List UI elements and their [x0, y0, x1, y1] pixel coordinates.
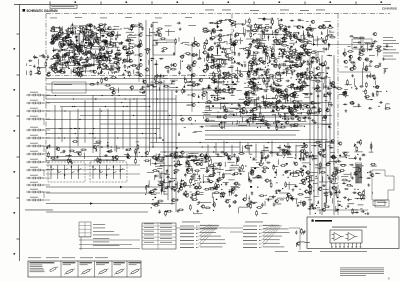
label text [157, 167, 162, 170]
ground [147, 185, 150, 188]
resistor R253 [229, 43, 235, 45]
capacitor C96 [220, 121, 222, 125]
ground [132, 51, 135, 54]
capacitor C112 [264, 79, 266, 83]
capacitor C74 [159, 81, 163, 83]
wire [325, 140, 334, 142]
capacitor C259 [257, 175, 259, 179]
diode D97 [278, 71, 280, 74]
wire [286, 36, 295, 38]
diode D18 [74, 71, 78, 73]
svg-text:CX-50 RS/G: CX-50 RS/G [382, 7, 397, 11]
wire [292, 170, 294, 176]
wire [249, 112, 253, 114]
label text [375, 172, 378, 175]
wire [259, 69, 263, 71]
ground [195, 156, 198, 159]
capacitor C264 [284, 172, 288, 174]
ground [122, 73, 125, 76]
resistor R65 [75, 60, 81, 62]
label text [181, 42, 183, 45]
wire [245, 19, 247, 24]
capacitor C113 [295, 115, 299, 117]
capacitor C130 [326, 67, 330, 69]
wire [74, 58, 78, 60]
diode D41 [183, 85, 185, 88]
wire [225, 18, 232, 20]
label text [249, 153, 252, 156]
diode D47 [154, 63, 158, 65]
node N105 [250, 43, 251, 44]
capacitor C255 [266, 162, 270, 164]
label text [87, 64, 91, 67]
transistor Q17 [72, 70, 76, 73]
block border far right [337, 14, 339, 216]
transistor Q144 [273, 64, 277, 67]
ground [182, 54, 185, 57]
label text [193, 54, 199, 57]
wire [243, 48, 245, 50]
transistor Q78 [291, 55, 295, 58]
transistor Q210 [230, 190, 234, 193]
wire [59, 40, 66, 42]
wire [108, 52, 110, 57]
capacitor C82 [278, 74, 282, 76]
wire [56, 56, 58, 66]
resistor R192 [213, 99, 219, 101]
sub-block box [52, 82, 86, 93]
resistor R49 [115, 52, 117, 58]
wire [232, 88, 234, 90]
wire [111, 73, 113, 74]
node N63 [233, 58, 234, 59]
capacitor C223 [154, 158, 158, 160]
label text [315, 114, 318, 117]
label text [272, 113, 275, 116]
ground [57, 52, 60, 55]
ground [85, 52, 88, 55]
ground [269, 179, 272, 182]
capacitor C1 [69, 46, 73, 48]
transistor Q181 [357, 57, 361, 60]
transistor Q230 [307, 185, 311, 188]
diode D106 [289, 111, 293, 113]
node N51 [176, 87, 177, 88]
node N29 [70, 39, 71, 40]
label text [330, 151, 335, 154]
ground [307, 60, 310, 63]
ground [283, 48, 286, 51]
capacitor C90 [279, 19, 283, 21]
label text [239, 108, 242, 111]
block border mid [46, 75, 232, 77]
label text [285, 33, 292, 36]
transistor Q196 [199, 162, 203, 165]
capacitor C32 [91, 30, 93, 34]
diode D10 [90, 42, 92, 45]
right vertical bus wires [310, 55, 334, 215]
transistor Q90 [323, 115, 327, 118]
diode D80 [297, 39, 301, 41]
wire [180, 60, 182, 70]
resistor R10 [114, 53, 120, 55]
transistor Q95 [210, 65, 214, 68]
capacitor C258 [281, 149, 285, 151]
wire [229, 47, 231, 51]
transistor Q103 [214, 90, 218, 93]
resistor R218 [250, 32, 252, 38]
resistor R275 [209, 188, 215, 190]
capacitor C270 [260, 151, 262, 155]
capacitor C147 [299, 52, 301, 56]
capacitor C50 [96, 37, 100, 39]
transistor Q142 [295, 58, 299, 61]
transistor Q132 [265, 53, 269, 56]
ground [288, 31, 291, 34]
capacitor C241 [168, 180, 172, 182]
wire [150, 81, 153, 83]
transistor Q176 [361, 49, 365, 52]
wire [227, 161, 234, 163]
wire [248, 148, 250, 153]
ground [261, 156, 264, 159]
transistor Q131 [300, 45, 304, 48]
wire [233, 41, 235, 47]
diode D71 [278, 48, 282, 50]
resistor R318 [285, 181, 287, 187]
label text [361, 45, 363, 48]
resistor R106 [154, 75, 156, 81]
resistor R175 [276, 80, 282, 82]
wire [193, 212, 195, 214]
wire [304, 79, 306, 85]
resistor R34 [59, 71, 65, 73]
capacitor C198 [349, 58, 351, 62]
label text [287, 44, 289, 47]
node N125 [282, 118, 283, 119]
label text [251, 201, 257, 204]
ground [216, 25, 219, 28]
node N37 [82, 51, 83, 52]
ground [302, 80, 305, 83]
resistor R179 [268, 74, 274, 76]
resistor R155 [286, 67, 288, 73]
wire [75, 58, 78, 60]
capacitor C193 [373, 40, 377, 42]
capacitor C98 [279, 26, 281, 30]
label text [70, 42, 74, 45]
node N89 [281, 19, 282, 20]
node N19 [54, 34, 55, 35]
wire [51, 58, 53, 60]
ground [324, 116, 327, 119]
label text [82, 33, 85, 36]
node N190 [352, 186, 353, 187]
transistor Q91 [315, 57, 319, 60]
node N99 [214, 90, 215, 91]
resistor R312 [255, 175, 261, 177]
resistor R40 [50, 65, 56, 67]
transistor Q76 [321, 26, 325, 29]
capacitor C277 [158, 210, 160, 214]
capacitor C247 [206, 166, 208, 170]
label text [139, 26, 144, 29]
capacitor C114 [257, 96, 259, 100]
ground [306, 41, 309, 44]
transistor Q166 [234, 40, 238, 43]
resistor R228 [287, 108, 293, 110]
diode D3 [116, 49, 120, 51]
diode D135 [264, 147, 268, 149]
wire [203, 113, 210, 115]
wire [253, 64, 259, 66]
wire [185, 43, 188, 45]
resistor R104 [140, 39, 142, 45]
ground [318, 167, 321, 170]
node N171 [250, 157, 251, 158]
resistor R223 [272, 88, 278, 90]
label text [296, 100, 303, 103]
diode D1 [112, 58, 116, 60]
label text [165, 173, 170, 176]
label text [345, 66, 348, 69]
node N7 [115, 42, 116, 43]
node N31 [109, 61, 110, 62]
resistor R59 [115, 53, 121, 55]
label text [70, 40, 72, 43]
resistor R44 [95, 28, 101, 30]
wire [182, 42, 189, 44]
label text [86, 41, 90, 44]
transistor Q227 [303, 144, 307, 147]
wire [322, 119, 327, 121]
wire [370, 73, 372, 78]
transistor Q77 [295, 56, 299, 59]
wire [312, 34, 314, 38]
capacitor C286 [324, 202, 326, 206]
resistor R296 [190, 178, 192, 184]
diode D54 [254, 71, 258, 73]
label text [60, 56, 65, 59]
capacitor C168 [298, 56, 302, 58]
wire [326, 29, 328, 37]
node N152 [164, 179, 165, 180]
resistor R184 [249, 70, 255, 72]
label text [209, 175, 214, 178]
resistor R159 [280, 93, 286, 95]
resistor R274 [157, 184, 163, 186]
diode D32 [98, 66, 102, 68]
transistor Q59 [157, 33, 161, 36]
resistor R37 [64, 53, 66, 59]
ground [275, 38, 278, 41]
capacitor C215 [166, 169, 168, 173]
resistor R43 [106, 56, 108, 62]
transistor Q108 [223, 116, 227, 119]
wire [70, 27, 72, 34]
label text [273, 31, 279, 34]
node N137 [363, 50, 364, 51]
capacitor C99 [253, 70, 257, 72]
border ruler left [14, 5, 20, 262]
resistor R122 [252, 109, 258, 111]
transistor Q111 [233, 75, 237, 78]
node N81 [210, 22, 211, 23]
capacitor C246 [213, 168, 215, 172]
capacitor C76 [244, 63, 246, 67]
wire [270, 85, 272, 91]
transistor Q53 [145, 68, 149, 71]
transistor Q226 [244, 145, 248, 148]
label text [283, 33, 287, 36]
capacitor C60 [88, 44, 92, 46]
transistor Q118 [284, 94, 288, 97]
transistor Q11 [71, 56, 75, 59]
node N30 [87, 57, 88, 58]
capacitor C4 [114, 56, 118, 58]
node N156 [174, 180, 175, 181]
ground [97, 72, 100, 75]
transistor Q194 [197, 186, 201, 189]
ground [59, 42, 62, 45]
wire [202, 97, 204, 99]
ground [336, 208, 339, 211]
resistor R265 [353, 61, 355, 67]
diode D125 [149, 191, 153, 193]
node N119 [311, 77, 312, 78]
resistor R125 [251, 63, 253, 69]
transistor Q2 [56, 55, 60, 58]
capacitor C238 [232, 174, 236, 176]
node N189 [355, 144, 356, 145]
capacitor C189 [234, 34, 236, 38]
wire [194, 213, 203, 215]
capacitor C182 [278, 99, 280, 103]
transistor Q121 [261, 61, 265, 64]
resistor R202 [246, 25, 252, 27]
wire [346, 180, 351, 182]
wire [127, 36, 129, 40]
svg-text:SCHEMATIC DIAGRAM: SCHEMATIC DIAGRAM [27, 9, 58, 13]
resistor R133 [211, 55, 213, 61]
capacitor C125 [289, 53, 293, 55]
resistor R12 [109, 42, 115, 44]
note box [50, 5, 77, 8]
transistor Q33 [63, 53, 67, 56]
node N2 [88, 51, 89, 52]
node N101 [292, 65, 293, 66]
wire [212, 82, 222, 84]
transistor Q140 [273, 39, 277, 42]
transistor Q20 [122, 59, 126, 62]
resistor R42 [128, 71, 130, 77]
capacitor C271 [233, 202, 237, 204]
wire [52, 39, 58, 41]
node N143 [386, 91, 387, 92]
wire [204, 119, 215, 121]
wire [218, 169, 224, 171]
resistor R38 [91, 52, 93, 58]
capacitor C222 [190, 175, 194, 177]
label text [115, 34, 121, 37]
transistor Q134 [271, 53, 275, 56]
capacitor C5 [93, 25, 95, 29]
wire [328, 145, 332, 147]
wire [365, 43, 371, 45]
transistor Q50 [65, 40, 69, 43]
resistor R138 [207, 65, 209, 71]
transistor Q39 [83, 34, 87, 37]
capacitor C276 [250, 200, 252, 204]
resistor R162 [230, 88, 236, 90]
wire [187, 172, 191, 174]
label text [278, 113, 281, 116]
wire [278, 64, 280, 69]
resistor R100 [189, 66, 191, 72]
wire [369, 54, 375, 56]
wire [304, 96, 310, 98]
transistor Q191 [194, 186, 198, 189]
wire [313, 195, 319, 197]
node N162 [207, 161, 208, 162]
resistor R134 [276, 101, 282, 103]
label text [203, 27, 208, 30]
capacitor C88 [212, 59, 214, 63]
node N177 [288, 177, 289, 178]
wire [162, 182, 164, 192]
capacitor C171 [292, 94, 296, 96]
wire [361, 76, 363, 86]
capacitor C285 [361, 154, 365, 156]
wire [230, 108, 239, 110]
wire [279, 192, 289, 194]
capacitor C205 [386, 44, 388, 48]
transistor Q229 [301, 201, 305, 204]
ground [60, 28, 63, 31]
resistor R301 [212, 187, 218, 189]
label text [386, 102, 390, 105]
wire [208, 105, 210, 110]
node N193 [316, 176, 317, 177]
label text [259, 42, 265, 45]
label text [286, 72, 290, 75]
capacitor C134 [262, 18, 266, 20]
label text [237, 32, 240, 35]
label text [287, 145, 292, 148]
diode D48 [198, 95, 200, 98]
node N145 [367, 59, 368, 60]
transistor Q16 [97, 60, 101, 63]
resistor R239 [206, 64, 208, 70]
capacitor C142 [256, 38, 258, 42]
node N62 [231, 45, 232, 46]
ground [256, 86, 259, 89]
label text [319, 71, 325, 74]
wire [360, 172, 362, 176]
diode D33 [53, 28, 55, 31]
wire [311, 203, 312, 205]
resistor R250 [202, 31, 208, 33]
resistor R177 [278, 25, 284, 27]
capacitor C275 [197, 201, 201, 203]
node N169 [200, 182, 201, 183]
label text [303, 48, 310, 51]
label text [280, 198, 284, 201]
node N38 [79, 43, 80, 44]
transistor Q177 [372, 32, 376, 35]
wire [100, 45, 102, 50]
wire [248, 177, 250, 183]
